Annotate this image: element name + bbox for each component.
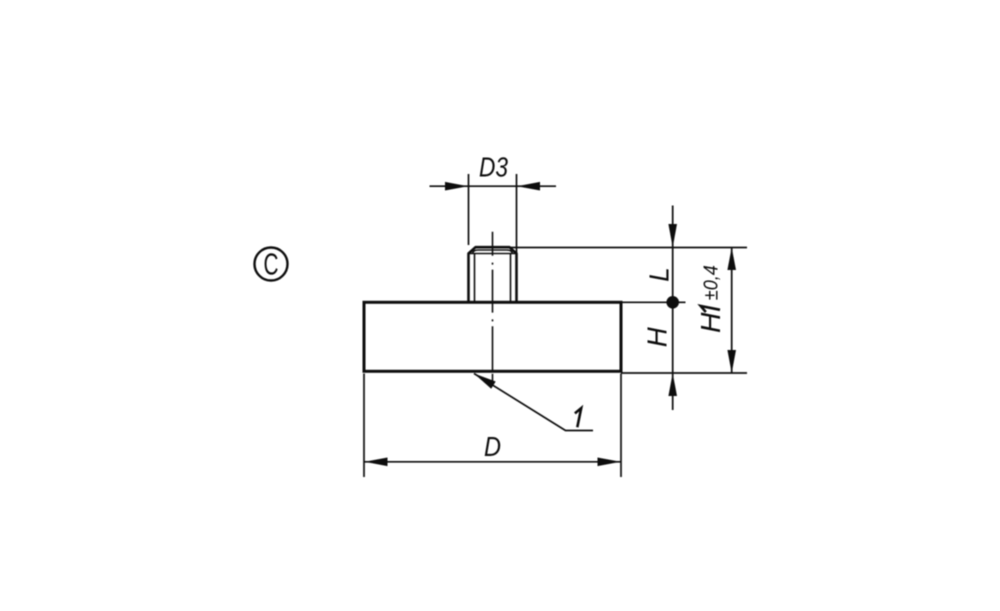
stud chamfer base line (469, 253, 517, 255)
leader arrowhead (474, 374, 496, 389)
D3 extension line left (468, 174, 470, 245)
junction dot (666, 296, 679, 309)
stud-top extension line (510, 247, 747, 249)
L top arrow (outside, pointing down) (668, 224, 677, 247)
magnet body outline (364, 302, 621, 371)
svg-text:D: D (484, 431, 501, 462)
body-bottom extension line (621, 372, 747, 374)
centerline (492, 232, 494, 382)
svg-text:H: H (695, 312, 726, 333)
body-top extension line (621, 301, 686, 303)
thread root line right (510, 254, 512, 302)
leader line for item 1 (474, 374, 593, 431)
stud dome arc line (473, 250, 513, 254)
threaded stud outline (469, 247, 517, 301)
H1 bottom arrow (inside, pointing down) (727, 350, 736, 373)
L/H dimension line (672, 206, 674, 411)
svg-text:H: H (641, 327, 672, 348)
D extension line left (363, 374, 365, 478)
D extension line right (620, 374, 622, 478)
label 1 (575, 408, 581, 427)
svg-text:L: L (644, 267, 675, 282)
D3 arrow right (517, 182, 540, 191)
thread root line left (474, 254, 476, 302)
svg-text:±0,4: ±0,4 (701, 265, 723, 300)
H bottom arrow (outside, pointing up) (668, 373, 677, 396)
version circle C (255, 248, 288, 281)
D arrow right (inside, pointing right) (598, 458, 621, 467)
D3 dimension line (430, 185, 557, 187)
H1 top arrow (inside, pointing up) (727, 248, 736, 271)
D arrow left (inside, pointing left) (365, 458, 388, 467)
svg-text:C: C (264, 247, 279, 282)
D3 arrow left (445, 182, 468, 191)
svg-text:D3: D3 (479, 152, 508, 183)
D3 extension line right (516, 174, 518, 254)
H1 dimension line (731, 248, 733, 374)
D dimension line (364, 461, 621, 463)
label H1 (695, 306, 726, 333)
